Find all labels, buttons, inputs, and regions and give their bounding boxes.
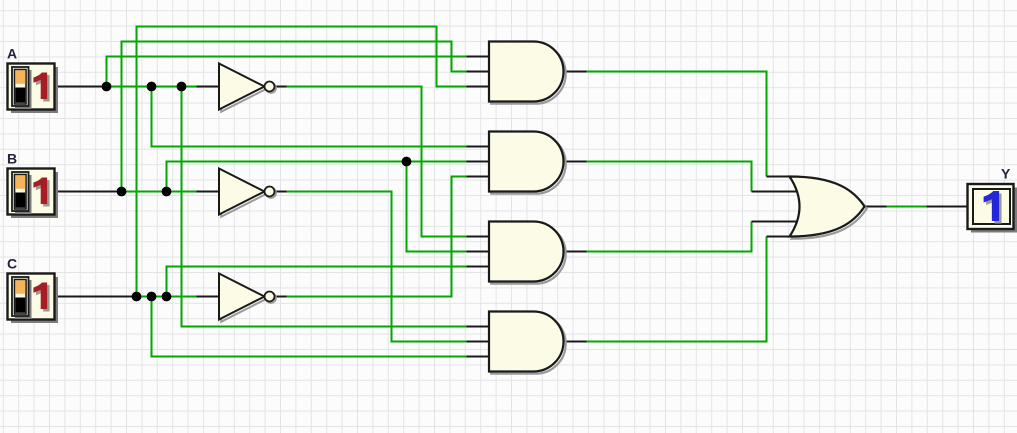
svg-text:Y: Y <box>1001 166 1011 182</box>
wire net A branch to AND2 top <box>151 87 467 147</box>
AND gate U4 <box>489 312 566 374</box>
wire switch A output lead <box>55 86 107 88</box>
wire AND U2 input pin 1 <box>467 146 491 148</box>
wire net C: switch C row <box>137 296 197 298</box>
wire net A branch to AND4 top <box>181 87 467 327</box>
wire AND U4 input pin 3 <box>467 356 491 358</box>
svg-text:A: A <box>7 46 17 62</box>
wire AND U4 input pin 1 <box>467 326 491 328</box>
svg-text:B: B <box>7 151 17 167</box>
node C1 junction <box>132 292 142 302</box>
wire net C branch to AND3 bottom <box>166 267 467 297</box>
AND gate U2 <box>489 132 566 194</box>
wire OR U5 output pin <box>865 206 887 208</box>
wire net A branch to AND1 top <box>106 57 467 89</box>
node C3 junction <box>162 292 172 302</box>
NOT gate NA (inverter) <box>219 64 276 112</box>
wire AND U3 input pin 3 <box>467 266 491 268</box>
AND gate U3 <box>489 222 566 284</box>
wire AND U3 input pin 2 <box>467 251 491 253</box>
svg-text:C: C <box>7 256 17 272</box>
wire OR U5 input pin 4 <box>767 236 795 238</box>
wire switch B output lead <box>55 191 122 193</box>
wire AND U2 input pin 3 <box>467 176 491 178</box>
input switch B (state 1) <box>8 169 59 219</box>
wire NOT-C output pin <box>274 296 287 298</box>
wire AND3 output to OR input 3 <box>587 222 752 253</box>
AND gate U1 <box>489 42 566 104</box>
wire AND U1 input pin 3 <box>467 86 491 88</box>
wire AND U3 input pin 1 <box>467 236 491 238</box>
wire OR U5 input pin 2 <box>752 191 799 193</box>
wire net B: switch B row <box>122 191 197 193</box>
wire NOT-A output pin <box>274 86 287 88</box>
output indicator Y (value 1) <box>968 184 1017 233</box>
OR gate U5 <box>790 177 867 239</box>
NOT gate NC (inverter) <box>219 274 276 322</box>
wire NOT-A input pin <box>197 86 221 88</box>
wire AND4 output to OR input 4 <box>587 237 767 343</box>
wire AND U4 input pin 2 <box>467 341 491 343</box>
wire output Y input pin <box>927 206 968 208</box>
input switch C (state 1) <box>8 274 59 324</box>
wire OR output to output Y <box>887 206 927 208</box>
wire net NOT-B output to AND4 middle <box>287 191 467 342</box>
node A2 junction <box>147 82 157 92</box>
NOT gate NB (inverter) <box>219 169 276 217</box>
wire net NOT-A output to AND3 top <box>287 86 467 237</box>
wire NOT-B output pin <box>274 191 287 193</box>
wire OR U5 input pin 3 <box>752 221 799 223</box>
wire AND U1 input pin 1 <box>467 56 491 58</box>
wire NOT-C input pin <box>197 296 221 298</box>
wire net NOT-C output to AND2 bottom <box>287 177 467 298</box>
wire AND1 output to OR input 1 <box>587 71 767 177</box>
node B2 junction <box>162 187 172 197</box>
wire AND U2 output pin <box>563 161 587 163</box>
wire AND U1 input pin 2 <box>467 71 491 73</box>
node B1 junction <box>117 187 127 197</box>
input switch A (state 1) <box>8 64 59 114</box>
wire AND U2 input pin 2 <box>467 161 491 163</box>
wire AND2 output to OR input 2 <box>587 161 752 192</box>
node B-mid junction <box>402 157 412 167</box>
wire switch C output lead <box>55 296 137 298</box>
wire net C branch to AND4 bottom <box>151 297 467 357</box>
wire net B branch to AND3 middle <box>406 162 467 252</box>
wire NOT-B input pin <box>197 191 221 193</box>
wire AND U1 output pin <box>563 71 587 73</box>
node A3 junction <box>177 82 187 92</box>
wire OR U5 input pin 1 <box>767 176 795 178</box>
wire net C branch to AND1 bottom <box>136 26 467 299</box>
wire AND U4 output pin <box>563 341 587 343</box>
wire net A: switch A row <box>107 86 197 88</box>
wire net B branch to AND2 middle <box>166 162 467 192</box>
node A1 junction <box>102 82 112 92</box>
wire net B branch to AND1 middle <box>121 41 467 194</box>
node C2 junction <box>147 292 157 302</box>
wire AND U3 output pin <box>563 251 587 253</box>
